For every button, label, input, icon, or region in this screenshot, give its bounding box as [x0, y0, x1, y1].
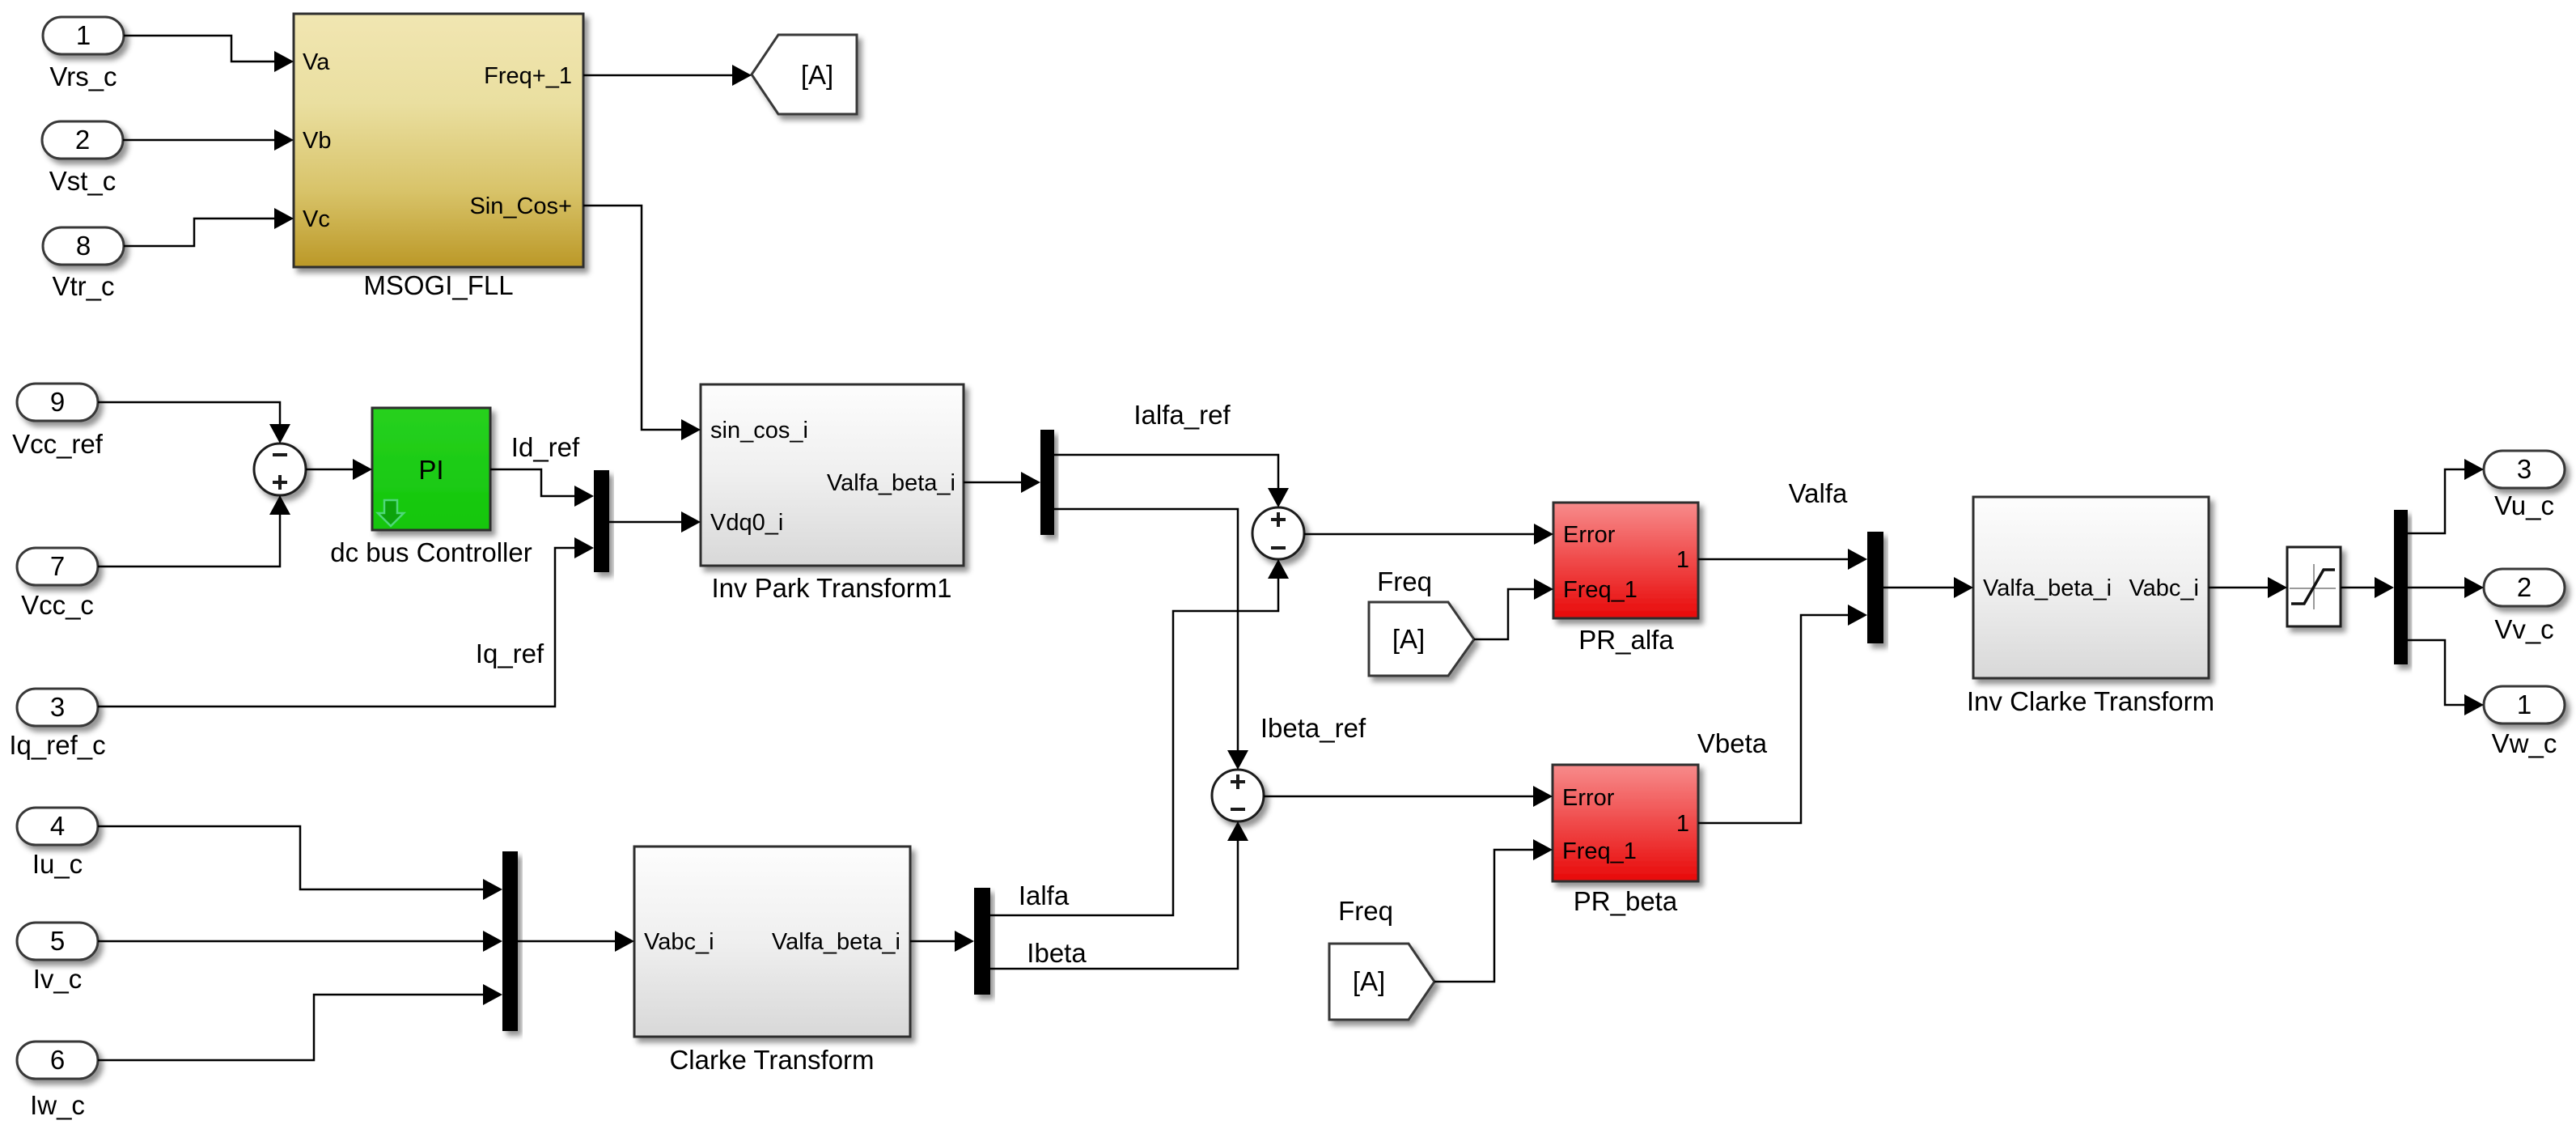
svg-text:Vb: Vb	[303, 128, 331, 154]
wire port5 to mux M2	[98, 931, 502, 952]
svg-text:Vrs_c: Vrs_c	[49, 62, 117, 91]
wire port7 to sum S1 bottom	[98, 495, 290, 566]
wire Ialfa_ref demux D1 to sum S2	[1054, 455, 1289, 507]
svg-text:Iv_c: Iv_c	[33, 964, 83, 994]
svg-text:Iw_c: Iw_c	[30, 1090, 85, 1120]
svg-text:Valfa_beta_i: Valfa_beta_i	[827, 470, 955, 496]
svg-text:6: 6	[50, 1045, 65, 1075]
subsystem MSOGI_FLL	[294, 14, 583, 300]
wire from tag A2 to PR_beta Freq_1	[1434, 839, 1553, 982]
svg-text:3: 3	[50, 692, 65, 722]
label Freq 2	[1338, 896, 1393, 926]
svg-text:1: 1	[2517, 690, 2532, 719]
svg-text:Ialfa_ref: Ialfa_ref	[1133, 400, 1231, 430]
svg-text:2: 2	[75, 125, 90, 155]
mux M1	[594, 470, 609, 572]
svg-text:Error: Error	[1562, 785, 1615, 811]
svg-text:sin_cos_i: sin_cos_i	[710, 418, 808, 443]
svg-text:5: 5	[50, 926, 65, 956]
svg-text:Vw_c: Vw_c	[2492, 728, 2557, 758]
svg-text:Iu_c: Iu_c	[32, 849, 83, 879]
inport 1 Vrs_c	[43, 17, 124, 91]
outport 3 Vu_c	[2484, 451, 2565, 520]
svg-text:[A]: [A]	[801, 60, 833, 90]
wire port1 to Va	[124, 36, 294, 72]
wire PR_alfa to mux M3	[1698, 549, 1867, 570]
label Ialfa	[1019, 881, 1070, 910]
wire Vbeta PR_beta to mux M3	[1698, 605, 1867, 823]
wire Inv Clarke to saturation	[2209, 577, 2287, 598]
subsystem PI dc bus Controller	[330, 408, 532, 567]
svg-text:PR_beta: PR_beta	[1574, 886, 1678, 916]
subsystem PR_alfa	[1553, 503, 1698, 655]
svg-text:Iq_ref_c: Iq_ref_c	[9, 730, 105, 760]
svg-text:Freq: Freq	[1338, 896, 1393, 926]
svg-text:3: 3	[2517, 454, 2532, 484]
wire sum S1 to PI	[306, 459, 372, 480]
svg-text:8: 8	[76, 231, 91, 261]
sum S1	[254, 443, 306, 495]
svg-text:Sin_Cos+: Sin_Cos+	[469, 193, 572, 219]
wire mux M3 to Inv Clarke	[1883, 577, 1973, 598]
inport 9 Vcc_ref	[12, 384, 104, 459]
wire Clarke to demux D2	[910, 931, 974, 952]
wire Inv Park to demux D1	[964, 472, 1040, 493]
svg-text:Ibeta: Ibeta	[1027, 938, 1087, 968]
inport 6 Iw_c	[17, 1042, 98, 1120]
wire port9 to sum S1 top	[98, 402, 290, 443]
svg-text:Va: Va	[303, 49, 330, 75]
label Freq 1	[1377, 566, 1432, 596]
wire Ialfa demux D2 to sum S2 bottom	[990, 559, 1289, 915]
svg-text:Ialfa: Ialfa	[1019, 881, 1070, 910]
wire sum S2 to PR_alfa Error	[1304, 524, 1553, 545]
wire demux D3 to outport Vu_c	[2407, 459, 2484, 533]
saturation block	[2287, 547, 2341, 626]
svg-text:dc bus Controller: dc bus Controller	[330, 537, 532, 567]
svg-text:Inv Park Transform1: Inv Park Transform1	[711, 573, 951, 603]
wire Sin_Cos+ to sin_cos_i	[583, 206, 701, 440]
svg-text:Freq_1: Freq_1	[1562, 838, 1637, 864]
svg-text:Vabc_i: Vabc_i	[2129, 575, 2199, 601]
subsystem Clarke Transform	[634, 847, 910, 1075]
wire mux M2 to Clarke	[518, 931, 634, 952]
svg-text:[A]: [A]	[1392, 624, 1425, 654]
svg-text:Error: Error	[1563, 522, 1616, 548]
svg-text:PR_alfa: PR_alfa	[1578, 625, 1674, 655]
label Iq_ref	[476, 639, 544, 668]
svg-text:Vdq0_i: Vdq0_i	[710, 510, 783, 536]
svg-text:Freq+_1: Freq+_1	[484, 63, 572, 89]
svg-text:Vbeta: Vbeta	[1697, 728, 1768, 758]
label Valfa	[1789, 478, 1848, 508]
wire saturation to demux D3	[2341, 577, 2394, 598]
inport 3 Iq_ref_c	[9, 689, 105, 760]
svg-text:MSOGI_FLL: MSOGI_FLL	[363, 270, 513, 300]
svg-text:Vabc_i: Vabc_i	[644, 929, 714, 955]
svg-text:7: 7	[50, 551, 65, 581]
demux D3	[2394, 510, 2408, 664]
label Vbeta	[1697, 728, 1768, 758]
wire sum S3 to PR_beta Error	[1264, 786, 1553, 807]
subsystem Inv Clarke Transform	[1967, 497, 2214, 716]
svg-text:Id_ref: Id_ref	[511, 432, 580, 462]
svg-text:1: 1	[1676, 547, 1689, 573]
svg-text:Freq: Freq	[1377, 566, 1432, 596]
goto tag A	[752, 35, 857, 114]
subsystem PR_beta	[1553, 765, 1698, 916]
wire Iq_ref port3 to mux M1	[98, 537, 594, 707]
wire port8 to Vc	[124, 208, 294, 246]
label Ibeta	[1027, 938, 1087, 968]
svg-text:Vc: Vc	[303, 206, 330, 232]
wire port2 to Vb	[123, 129, 294, 151]
label Ibeta_ref	[1260, 713, 1366, 743]
mux M2	[502, 851, 518, 1031]
demux D2	[974, 888, 990, 995]
inport 5 Iv_c	[17, 923, 98, 994]
svg-text:[A]: [A]	[1353, 966, 1385, 996]
svg-text:9: 9	[50, 387, 65, 417]
svg-text:Vv_c: Vv_c	[2494, 614, 2553, 644]
from tag A1	[1369, 602, 1474, 676]
svg-text:Vcc_c: Vcc_c	[21, 590, 94, 620]
wire mux M1 to Vdq0_i	[609, 511, 701, 533]
svg-text:Ibeta_ref: Ibeta_ref	[1260, 713, 1366, 743]
svg-text:1: 1	[76, 20, 91, 50]
svg-text:1: 1	[1676, 811, 1689, 837]
demux D1	[1040, 430, 1054, 535]
wire port4 to mux M2	[98, 826, 502, 900]
mux M3	[1867, 532, 1883, 643]
wire Id_ref PI to mux M1	[490, 469, 594, 507]
svg-text:Iq_ref: Iq_ref	[476, 639, 544, 668]
inport 7 Vcc_c	[17, 548, 98, 620]
svg-text:PI: PI	[418, 455, 443, 485]
wire from tag A1 to PR_alfa Freq_1	[1474, 579, 1553, 639]
wire Ibeta demux D2 to sum S3 bottom	[990, 821, 1248, 969]
svg-text:Valfa: Valfa	[1789, 478, 1848, 508]
wire Ibeta_ref demux D1 to sum S3	[1054, 509, 1248, 770]
wire demux D3 to outport Vw_c	[2407, 640, 2484, 715]
inport 4 Iu_c	[17, 808, 98, 879]
sum S2	[1252, 507, 1304, 559]
svg-text:Vtr_c: Vtr_c	[52, 271, 114, 301]
outport 2 Vv_c	[2484, 569, 2565, 644]
from tag A2	[1329, 944, 1434, 1020]
svg-text:Vst_c: Vst_c	[49, 166, 117, 196]
svg-text:2: 2	[2517, 572, 2532, 602]
sum S3	[1212, 770, 1264, 821]
wire Freq+_1 to goto A	[583, 65, 752, 86]
svg-text:4: 4	[50, 811, 65, 841]
svg-text:Valfa_beta_i: Valfa_beta_i	[772, 929, 900, 955]
wire port6 to mux M2	[98, 984, 502, 1060]
wire demux D3 to outport Vv_c	[2407, 577, 2484, 598]
subsystem Inv Park Transform1	[701, 384, 964, 603]
label Id_ref	[511, 432, 580, 462]
inport 2 Vst_c	[42, 121, 123, 196]
svg-text:Clarke Transform: Clarke Transform	[669, 1045, 874, 1075]
svg-text:Valfa_beta_i: Valfa_beta_i	[1983, 575, 2112, 601]
outport 1 Vw_c	[2484, 686, 2565, 758]
svg-text:Inv Clarke Transform: Inv Clarke Transform	[1967, 686, 2214, 716]
label Ialfa_ref	[1133, 400, 1231, 430]
inport 8 Vtr_c	[43, 227, 124, 301]
svg-text:Freq_1: Freq_1	[1563, 577, 1638, 603]
svg-text:Vu_c: Vu_c	[2494, 490, 2554, 520]
svg-text:Vcc_ref: Vcc_ref	[12, 429, 104, 459]
